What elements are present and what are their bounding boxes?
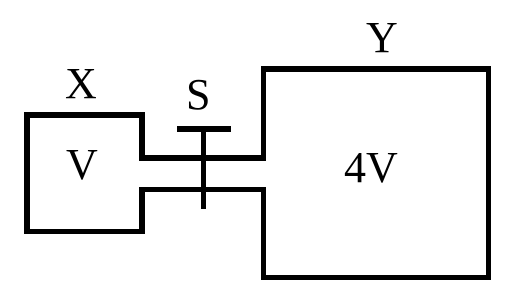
label S (valve) [186,73,210,117]
container Y: left wall upper segment [261,66,267,161]
valve S: stem [201,126,207,209]
label V (volume of X) [66,143,98,187]
connecting tube: top wall [139,155,266,161]
label 4V (volume of Y) [344,146,398,190]
container X: top wall [24,112,145,118]
container X: bottom wall [24,229,145,235]
container Y: bottom wall [261,275,492,281]
valve S: handle bar [177,126,231,132]
label X (container X) [65,62,97,106]
container Y: left wall lower segment [261,187,267,281]
label Y (container Y) [366,16,398,60]
container Y: top wall [261,66,492,72]
container X: left wall [24,112,30,234]
container X: right wall upper segment [139,112,145,161]
connecting tube: bottom wall [139,187,266,193]
container X: right wall lower segment [139,187,145,235]
container Y: right wall [486,66,492,280]
